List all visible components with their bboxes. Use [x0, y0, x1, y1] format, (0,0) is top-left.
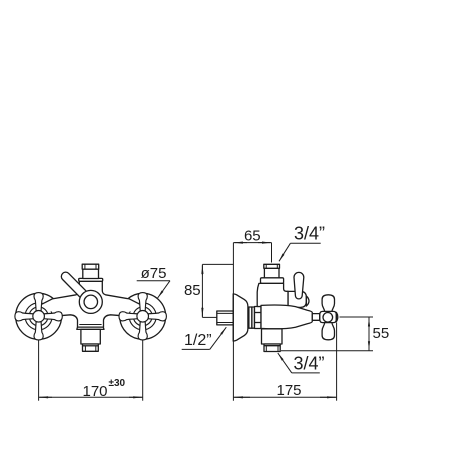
- svg-text:65: 65: [244, 228, 261, 245]
- svg-text:ø75: ø75: [141, 265, 167, 282]
- svg-text:175: 175: [276, 382, 301, 399]
- svg-text:1/2”: 1/2”: [184, 332, 212, 349]
- svg-text:170: 170: [82, 383, 107, 400]
- svg-text:±30: ±30: [108, 378, 125, 389]
- svg-text:3/4”: 3/4”: [294, 224, 325, 244]
- svg-text:85: 85: [184, 282, 201, 299]
- svg-text:55: 55: [373, 325, 390, 342]
- svg-text:3/4”: 3/4”: [293, 354, 324, 374]
